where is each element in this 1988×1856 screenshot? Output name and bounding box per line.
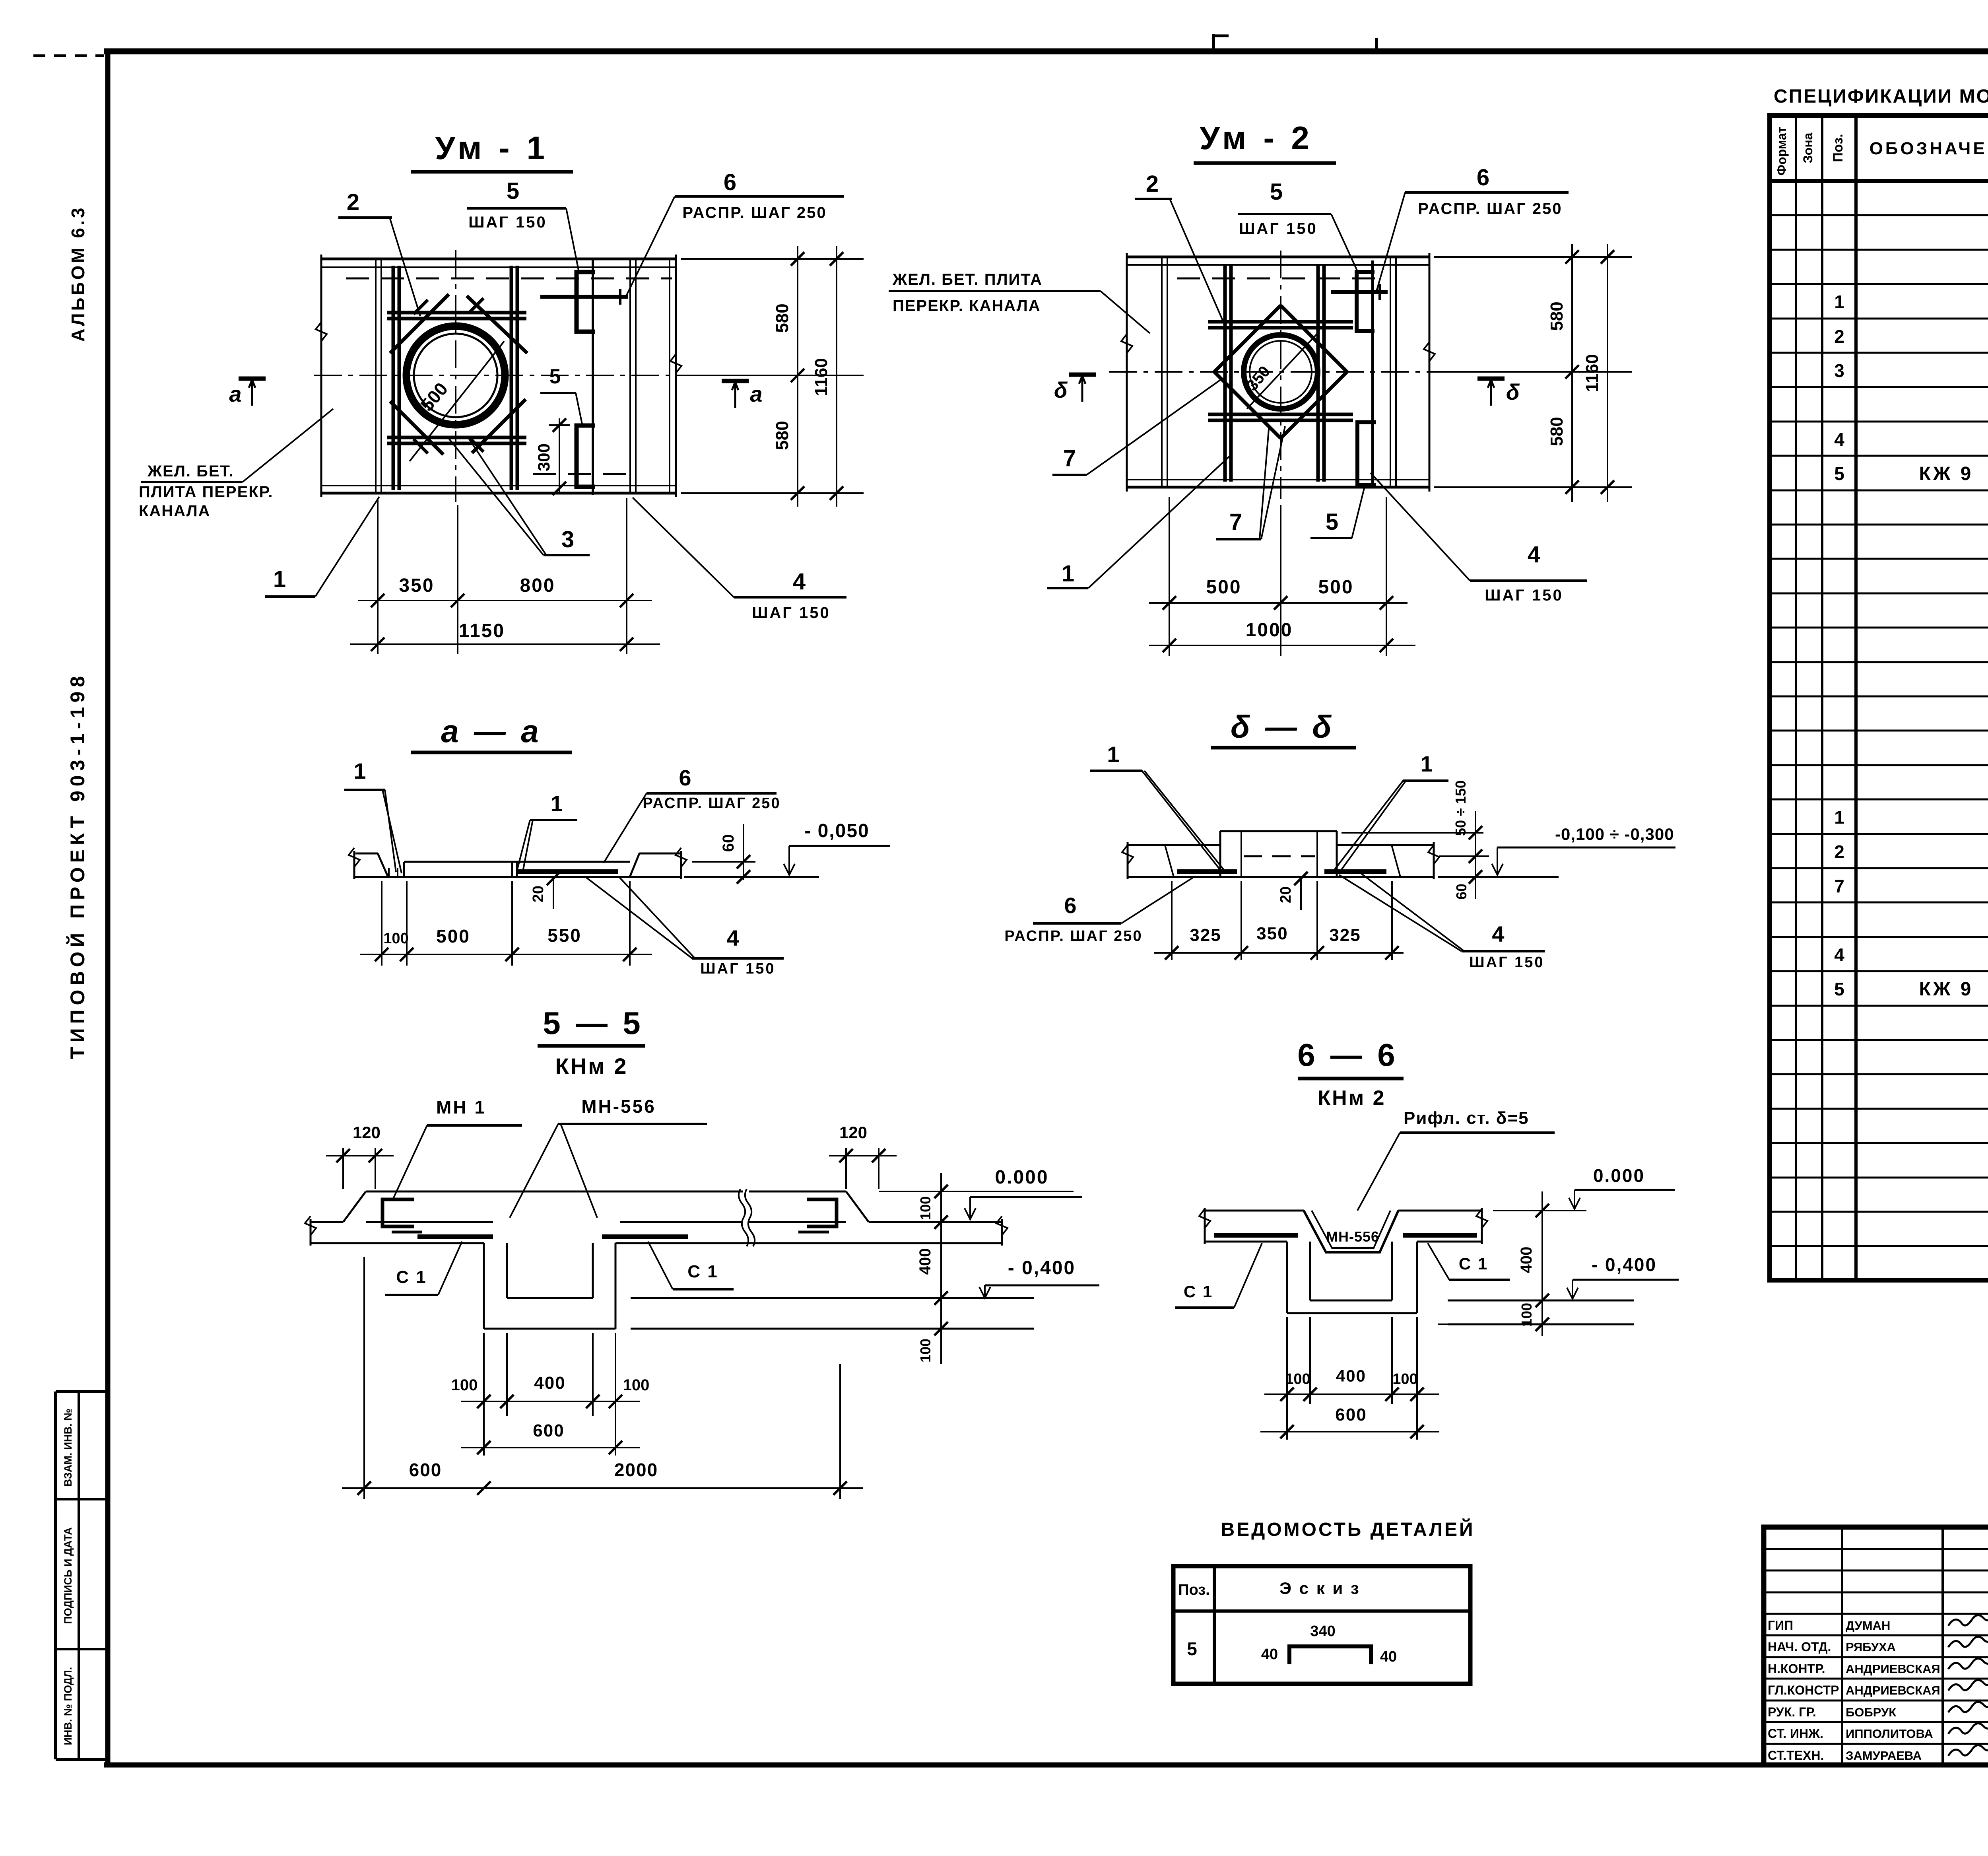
plan Ум-1 bottom dimensions [350, 498, 660, 654]
svg-text:1160: 1160 [1582, 354, 1602, 392]
section 5-5 elevation 0.000 [879, 1167, 1082, 1219]
svg-text:5: 5 [1187, 1638, 1197, 1659]
svg-text:Рифл. ст. δ=5: Рифл. ст. δ=5 [1404, 1108, 1529, 1128]
section b-b dim 20 [1277, 872, 1308, 910]
svg-text:5: 5 [1326, 509, 1338, 535]
section a-a elevation -0.050 [684, 820, 890, 877]
svg-text:С 1: С 1 [687, 1262, 718, 1281]
svg-text:40: 40 [1380, 1648, 1397, 1665]
section a-a bottom dimensions [360, 881, 652, 966]
svg-text:4: 4 [1834, 429, 1844, 450]
svg-text:5: 5 [1834, 463, 1844, 484]
svg-text:4: 4 [1834, 945, 1844, 965]
svg-text:600: 600 [533, 1421, 564, 1440]
svg-text:СТ.ТЕХН.: СТ.ТЕХН. [1768, 1748, 1824, 1763]
svg-text:50 ÷ 150: 50 ÷ 150 [1452, 780, 1469, 836]
svg-text:120: 120 [839, 1123, 867, 1142]
svg-text:340: 340 [1310, 1623, 1335, 1640]
svg-text:2: 2 [347, 189, 359, 215]
plan Ум-1 diagonal bars pos3 [390, 294, 527, 455]
svg-text:325: 325 [1190, 925, 1221, 945]
svg-text:МН-556: МН-556 [581, 1096, 656, 1117]
plan Ум-1 diameter dimension 500 [410, 341, 504, 461]
svg-text:1: 1 [353, 758, 366, 783]
svg-text:ЖЕЛ. БЕТ. ПЛИТА: ЖЕЛ. БЕТ. ПЛИТА [892, 271, 1043, 288]
svg-text:325: 325 [1329, 925, 1361, 945]
svg-text:5 — 5: 5 — 5 [543, 1005, 643, 1041]
plan Ум-1 dim 300 [534, 418, 570, 495]
section 5-5 dim 120 left [326, 1123, 394, 1189]
svg-text:800: 800 [520, 575, 555, 596]
svg-text:Э с к и з: Э с к и з [1279, 1579, 1361, 1598]
svg-text:580: 580 [1547, 417, 1567, 446]
svg-text:а: а [750, 381, 762, 406]
svg-text:40: 40 [1261, 1646, 1278, 1663]
plan Ум-1 leader 6 распр. шаг 250 [626, 169, 844, 296]
plan Ум-2 leader 5 шаг 150 [1238, 179, 1358, 272]
section b-b title [1211, 709, 1356, 748]
svg-text:Поз.: Поз. [1178, 1582, 1209, 1598]
svg-text:5: 5 [549, 365, 561, 388]
svg-text:2: 2 [1146, 171, 1159, 197]
section 6-6 label C1 left [1175, 1243, 1262, 1308]
section 6-6 bottom dims row2 [1260, 1405, 1439, 1438]
plan Ум-2 right dimension chain 580/580 [1434, 244, 1632, 502]
svg-text:5: 5 [1270, 179, 1283, 205]
section b-b leader 1 left [1090, 742, 1225, 872]
section b-b right dims 50-150 60 [1342, 780, 1559, 900]
plan Ум-2 leader 5 bottom [1310, 487, 1365, 538]
svg-text:500: 500 [1206, 577, 1241, 598]
plan Ум-2 rebar pos2 horizontal bars [1208, 322, 1353, 420]
svg-text:ШАГ 150: ШАГ 150 [752, 604, 831, 622]
plan Ум-1 rebar pos2 horizontal bars [387, 313, 526, 443]
svg-text:3: 3 [561, 527, 574, 552]
title block signatures [1948, 1615, 1988, 1756]
svg-text:С 1: С 1 [1184, 1282, 1213, 1301]
plan Ум-1 leader 3 [449, 437, 590, 555]
section 5-5 title [538, 1005, 645, 1079]
plan Ум-2 opening circle [1244, 335, 1318, 409]
svg-text:100: 100 [917, 1196, 934, 1220]
section 5-5 label МН 1 [393, 1097, 522, 1199]
plan Ум-1 title [411, 130, 573, 172]
svg-text:ИНВ. № ПОДЛ.: ИНВ. № ПОДЛ. [62, 1667, 74, 1745]
svg-text:6: 6 [679, 765, 691, 790]
section a-a dim 60 [692, 824, 755, 884]
plan Ум-1 channel brackets pos5 [577, 259, 595, 495]
section 5-5 label МН-556 [510, 1096, 707, 1218]
section b-b leader 6 распр шаг 250 [1004, 878, 1193, 945]
svg-text:6: 6 [1477, 165, 1489, 190]
left margin stamp boxes [56, 1392, 108, 1759]
svg-text:МН 1: МН 1 [436, 1097, 486, 1117]
plan Ум-2 leader 7 left [1052, 379, 1222, 475]
svg-text:1: 1 [1834, 292, 1844, 312]
section a-a slab [349, 848, 687, 879]
plan Ум-2 leader 4 шаг 150 [1371, 473, 1587, 604]
svg-text:КАНАЛА: КАНАЛА [139, 502, 211, 520]
svg-text:РУК. ГР.: РУК. ГР. [1768, 1705, 1816, 1719]
svg-text:С 1: С 1 [396, 1267, 427, 1287]
plan Ум-1 opening circle [406, 326, 505, 425]
plan Ум-1 right dimension 1160 [812, 246, 843, 507]
svg-text:400: 400 [916, 1248, 934, 1275]
plan Ум-1 leader 4 шаг 150 [633, 498, 846, 622]
section 6-6 label рифл ст [1357, 1108, 1555, 1211]
svg-text:РАСПР. ШАГ 250: РАСПР. ШАГ 250 [643, 795, 780, 812]
plan Ум-2 leader 6 распр. шаг 250 [1376, 165, 1569, 291]
svg-text:Ум - 1: Ум - 1 [435, 130, 549, 166]
section 6-6 dim 400 [1518, 1191, 1549, 1336]
plan Ум-2 slab outline [1121, 253, 1435, 492]
section 5-5 hook right [798, 1199, 837, 1232]
svg-text:1: 1 [273, 566, 286, 592]
spec table grid [1770, 115, 1988, 1280]
plan Ум-2 distribution bar pos6 [1331, 284, 1388, 300]
section 6-6 label C1 right [1428, 1243, 1510, 1280]
title block outer [1764, 1527, 1988, 1765]
title block signature grid [1764, 1527, 1988, 1765]
svg-text:100: 100 [1285, 1371, 1310, 1388]
svg-text:5: 5 [1834, 979, 1844, 999]
section 6-6 trapezoid МН-556 [1304, 1211, 1398, 1252]
section a-a title [411, 713, 572, 752]
svg-text:ИППОЛИТОВА: ИППОЛИТОВА [1846, 1727, 1933, 1741]
svg-text:1: 1 [1834, 807, 1844, 828]
svg-text:20: 20 [1277, 886, 1294, 903]
section b-b leader 1 right [1335, 751, 1448, 872]
svg-text:ЖЕЛ. БЕТ.: ЖЕЛ. БЕТ. [147, 463, 234, 480]
svg-text:1: 1 [1107, 742, 1119, 767]
svg-text:Ум - 2: Ум - 2 [1200, 120, 1313, 156]
svg-text:АЛЬБОМ 6.3: АЛЬБОМ 6.3 [68, 205, 88, 342]
svg-text:100: 100 [917, 1339, 934, 1362]
section b-b leader 4 шаг 150 [1339, 874, 1545, 971]
svg-text:400: 400 [1336, 1366, 1366, 1385]
plan Ум-2 section mark б right [1477, 379, 1520, 406]
svg-text:3: 3 [1834, 360, 1844, 381]
svg-text:600: 600 [1335, 1405, 1367, 1425]
svg-text:60: 60 [720, 834, 737, 852]
svg-text:КЖ 9: КЖ 9 [1919, 979, 1974, 1000]
svg-text:4: 4 [1528, 542, 1540, 567]
svg-text:ВЕДОМОСТЬ ДЕТАЛЕЙ: ВЕДОМОСТЬ ДЕТАЛЕЙ [1221, 1518, 1475, 1540]
plan Ум-1 slab outline [316, 255, 681, 497]
plan Ум-1 label жел.бет. плита [139, 409, 333, 520]
svg-text:0.000: 0.000 [1593, 1165, 1645, 1186]
svg-text:МН-556: МН-556 [1326, 1228, 1379, 1245]
svg-text:АНДРИЕВСКАЯ: АНДРИЕВСКАЯ [1846, 1662, 1940, 1676]
svg-text:РАСПР. ШАГ 250: РАСПР. ШАГ 250 [682, 204, 827, 222]
svg-text:АНДРИЕВСКАЯ: АНДРИЕВСКАЯ [1846, 1683, 1940, 1697]
section 6-6 bottom dims row1 [1264, 1317, 1439, 1440]
svg-text:100: 100 [1518, 1303, 1535, 1327]
spec table column headers [1774, 127, 1988, 176]
svg-text:120: 120 [353, 1123, 381, 1142]
svg-text:1: 1 [1062, 561, 1074, 587]
svg-text:60: 60 [1453, 884, 1470, 900]
svg-text:6 — 6: 6 — 6 [1297, 1037, 1398, 1073]
svg-text:РЯБУХА: РЯБУХА [1846, 1640, 1896, 1654]
svg-text:350: 350 [399, 575, 434, 596]
left margin vertical captions [66, 205, 89, 1059]
svg-text:СТ. ИНЖ.: СТ. ИНЖ. [1768, 1726, 1823, 1741]
svg-text:500: 500 [436, 926, 470, 946]
section 6-6 slab outline [1199, 1208, 1487, 1244]
svg-text:ТИПОВОЙ ПРОЕКТ 903-1-198: ТИПОВОЙ ПРОЕКТ 903-1-198 [66, 672, 89, 1059]
svg-text:1160: 1160 [812, 358, 831, 396]
svg-text:ЗАМУРАЕВА: ЗАМУРАЕВА [1846, 1749, 1922, 1763]
svg-text:550: 550 [547, 925, 582, 946]
svg-text:300: 300 [534, 443, 553, 471]
svg-text:ШАГ 150: ШАГ 150 [468, 214, 547, 231]
svg-text:С 1: С 1 [1459, 1254, 1488, 1273]
svg-text:КНм 2: КНм 2 [1318, 1086, 1386, 1110]
plan Ум-2 leader 7 bottom [1216, 425, 1285, 539]
svg-text:0.000: 0.000 [995, 1167, 1048, 1188]
plan Ум-1 right dimension chain 580/580 [681, 246, 864, 507]
svg-text:6: 6 [724, 169, 736, 195]
section a-a leader 6 распр шаг 250 [604, 765, 781, 863]
section 6-6 pit [1287, 1242, 1634, 1324]
svg-text:КНм 2: КНм 2 [555, 1053, 628, 1079]
section 5-5 pit [484, 1243, 1034, 1329]
svg-text:δ: δ [1054, 377, 1068, 402]
section a-a dim 20 [530, 872, 560, 909]
svg-text:РАСПР. ШАГ 250: РАСПР. ШАГ 250 [1004, 928, 1142, 945]
svg-text:- 0,050: - 0,050 [804, 820, 869, 842]
svg-text:100: 100 [383, 930, 408, 947]
section 5-5 right dim chain 100/400/100 [916, 1173, 948, 1364]
svg-text:δ — δ: δ — δ [1231, 709, 1335, 744]
svg-text:ШАГ 150: ШАГ 150 [1239, 220, 1318, 237]
plan Ум-2 label жел.бет. плита [889, 271, 1150, 333]
svg-text:ШАГ 150: ШАГ 150 [700, 960, 775, 977]
section 5-5 C1 plates [417, 1234, 688, 1239]
plan Ум-2 title [1194, 120, 1336, 163]
svg-text:580: 580 [773, 303, 792, 332]
svg-text:ГЛ.КОНСТР: ГЛ.КОНСТР [1768, 1683, 1839, 1697]
section 5-5 elevation -0.400 [979, 1257, 1099, 1298]
svg-text:6: 6 [1064, 893, 1076, 918]
svg-text:4: 4 [793, 569, 806, 595]
svg-text:Н.КОНТР.: Н.КОНТР. [1768, 1662, 1825, 1676]
section 5-5 label C1 left [385, 1242, 462, 1295]
svg-text:580: 580 [1547, 301, 1567, 330]
svg-text:600: 600 [409, 1460, 442, 1480]
section 6-6 elevation -0.400 [1438, 1254, 1679, 1300]
svg-text:ПЛИТА ПЕРЕКР.: ПЛИТА ПЕРЕКР. [139, 483, 273, 501]
section b-b elevation -0.100 / -0.300 [1492, 825, 1675, 875]
svg-text:580: 580 [773, 421, 792, 450]
plan Ум-2 right dimension 1160 [1582, 244, 1614, 502]
ведомость деталей table [1173, 1566, 1470, 1684]
plan Ум-2 centerlines [1109, 251, 1451, 499]
svg-text:350: 350 [1256, 924, 1288, 943]
svg-text:Поз.: Поз. [1831, 134, 1846, 162]
plan Ум-2 leader 1 [1047, 455, 1231, 588]
plan Ум-1 leader 1 [265, 497, 379, 597]
svg-text:ШАГ 150: ШАГ 150 [1469, 954, 1544, 971]
plan Ум-1 section mark a right [722, 381, 763, 408]
svg-text:ПЕРЕКР. КАНАЛА: ПЕРЕКР. КАНАЛА [893, 297, 1041, 315]
svg-text:400: 400 [534, 1373, 565, 1393]
plan Ум-2 diameter dimension 350 [1243, 334, 1317, 409]
svg-text:- 0,400: - 0,400 [1008, 1257, 1076, 1279]
svg-text:δ: δ [1506, 379, 1520, 404]
svg-text:100: 100 [1392, 1371, 1417, 1388]
plan Ум-1 leader 5 шаг 150 [467, 178, 579, 272]
svg-text:7: 7 [1063, 445, 1076, 471]
section 6-6 elevation 0.000 [1493, 1165, 1675, 1211]
section a-a leader 1 left [344, 758, 402, 873]
plan Ум-2 diamond bars [1214, 305, 1347, 438]
plan Ум-1 distribution bar pos6 [540, 289, 628, 305]
svg-text:2: 2 [1834, 326, 1844, 347]
svg-text:ДУМАН: ДУМАН [1846, 1619, 1890, 1633]
section 6-6 title [1297, 1037, 1404, 1110]
svg-text:20: 20 [530, 886, 547, 902]
svg-text:- 0,400: - 0,400 [1592, 1254, 1657, 1275]
svg-text:СПЕЦИФИКАЦИИ МОНОЛИТНЫХ УЧАС: СПЕЦИФИКАЦИИ МОНОЛИТНЫХ УЧАСТКОВ Ум 1, У… [1774, 86, 1988, 107]
svg-text:ШАГ 150: ШАГ 150 [1485, 587, 1563, 604]
title block roles and names [1768, 1618, 1940, 1763]
svg-text:КЖ 9: КЖ 9 [1919, 463, 1974, 484]
svg-text:ПОДПИСЬ И ДАТА: ПОДПИСЬ И ДАТА [62, 1527, 74, 1624]
plan Ум-1 section mark a left [229, 379, 266, 406]
section b-b bottom dimensions [1154, 881, 1404, 960]
svg-text:1: 1 [550, 791, 563, 816]
svg-text:Зона: Зона [1801, 132, 1815, 163]
section a-a leader 1 mid [517, 791, 577, 873]
ведомость деталей sketch pos5 [1261, 1623, 1397, 1665]
section 5-5 dim 120 right [829, 1123, 897, 1189]
svg-text:400: 400 [1518, 1247, 1535, 1273]
svg-text:а: а [229, 381, 241, 406]
plan Ум-2 section mark б left [1054, 375, 1096, 402]
plan Ум-2 rebar pos7 vertical bars [1225, 264, 1324, 482]
svg-text:2000: 2000 [614, 1460, 658, 1480]
svg-text:1150: 1150 [459, 620, 505, 641]
section 5-5 label C1 right [648, 1242, 734, 1289]
svg-text:а — а: а — а [441, 713, 542, 749]
section 5-5 bottom dims row1 [451, 1333, 650, 1456]
svg-text:ОБОЗНАЧЕНИЕ: ОБОЗНАЧЕНИЕ [1870, 139, 1988, 158]
spec table rows block Ум1 [1834, 187, 1988, 622]
svg-text:7: 7 [1834, 876, 1844, 896]
svg-text:7: 7 [1229, 509, 1242, 535]
svg-text:БОБРУК: БОБРУК [1846, 1705, 1896, 1719]
svg-text:-0,100 ÷ -0,300: -0,100 ÷ -0,300 [1555, 825, 1674, 843]
svg-text:4: 4 [1492, 921, 1504, 946]
plan Ум-2 bottom dimensions [1149, 497, 1415, 656]
section 6-6 dim 100 [1438, 1303, 1563, 1331]
svg-text:ВЗАМ. ИНВ. №: ВЗАМ. ИНВ. № [62, 1409, 74, 1487]
section 5-5 hook МН1 left [382, 1199, 422, 1232]
section 5-5 slab outline [305, 1189, 1008, 1246]
svg-text:2: 2 [1834, 842, 1844, 862]
spec table rows block Ум2 [1834, 702, 1988, 1137]
plan Ум-1 rebar pos1 vertical bars [393, 266, 517, 490]
section 6-6 C1 plates [1214, 1233, 1477, 1238]
section 5-5 bottom dims row2 [461, 1421, 640, 1454]
svg-text:500: 500 [1318, 577, 1353, 598]
svg-text:ГИП: ГИП [1768, 1618, 1793, 1633]
plan Ум-2 leader 2 [1135, 171, 1224, 323]
svg-text:100: 100 [451, 1376, 478, 1394]
section 5-5 bottom dims row3 [342, 1257, 863, 1499]
svg-text:РАСПР. ШАГ 250: РАСПР. ШАГ 250 [1418, 200, 1562, 218]
svg-text:НАЧ. ОТД.: НАЧ. ОТД. [1768, 1640, 1831, 1654]
svg-text:1: 1 [1420, 751, 1433, 776]
svg-text:100: 100 [623, 1376, 650, 1394]
plan Ум-1 leader 5 mid [540, 365, 582, 424]
section a-a leader 4 шаг 150 [586, 876, 784, 977]
plan Ум-2 channel brackets pos5 [1357, 260, 1376, 488]
svg-text:5: 5 [507, 178, 519, 204]
plan Ум-1 centerlines [314, 250, 700, 502]
plan Ум-1 leader 2 [338, 189, 420, 316]
svg-text:1000: 1000 [1246, 620, 1293, 641]
svg-text:4: 4 [726, 925, 739, 950]
section b-b slab [1122, 831, 1439, 879]
svg-text:Формат: Формат [1774, 127, 1789, 176]
